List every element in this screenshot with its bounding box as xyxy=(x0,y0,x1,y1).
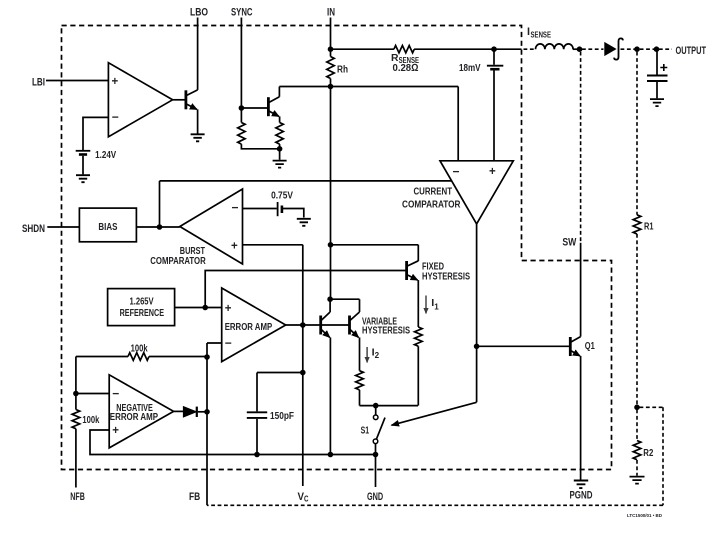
battery 18mV xyxy=(487,65,503,67)
svg-text:COMPARATOR: COMPARATOR xyxy=(150,256,206,267)
wire (external, dashed) SW column xyxy=(580,52,582,243)
ground (0.75V) xyxy=(297,219,311,226)
plus sign COUT xyxy=(660,64,667,71)
diode D1 (Schottky) xyxy=(605,38,623,59)
resistor Rh xyxy=(327,57,334,79)
wire comparator output column xyxy=(476,224,478,402)
svg-text:1.265V: 1.265V xyxy=(130,297,154,308)
resistor 100k (NFB) xyxy=(72,410,80,429)
svg-text:ERROR AMP: ERROR AMP xyxy=(225,322,273,333)
ground (R2) xyxy=(630,477,645,484)
wire NFB column upper xyxy=(75,357,77,410)
wire Q-SYNC collector up xyxy=(278,87,280,97)
wire battery to ground xyxy=(283,209,304,218)
ground (1.24V) xyxy=(76,175,90,182)
op-amp negative error amp xyxy=(109,375,173,448)
wire (external, dashed) R2 to ground xyxy=(636,460,638,476)
wire to ground xyxy=(279,144,281,160)
node junction SYNC/base xyxy=(239,105,245,111)
transistor fixed hysteresis xyxy=(407,261,419,280)
wire top rail y=86.5 to current comparator minus xyxy=(279,87,458,161)
node junction collectors xyxy=(327,296,333,302)
ground (COUT) xyxy=(650,99,664,106)
wire 150pF top xyxy=(257,373,303,412)
wire Q1 base xyxy=(477,345,569,347)
wire 100k feedback row xyxy=(76,356,128,358)
resistor I1 xyxy=(414,327,422,346)
node junction IN rail xyxy=(328,84,334,90)
resistor (SYNC left) xyxy=(238,123,245,145)
svg-text:OUTPUT: OUTPUT xyxy=(676,45,707,57)
node junction VC/150pF xyxy=(300,370,306,376)
transistor variable hysteresis left xyxy=(321,299,330,337)
wire Q1 emitter to PGND xyxy=(580,356,582,480)
wire (external, dashed) R1 to divider tap xyxy=(636,234,638,406)
svg-text:1: 1 xyxy=(434,302,439,312)
svg-text:+: + xyxy=(225,303,232,315)
wire resistor bottom corner xyxy=(241,144,279,149)
svg-text:HYSTERESIS: HYSTERESIS xyxy=(362,326,410,337)
switch S1 xyxy=(373,406,385,455)
wire battery to ground xyxy=(82,156,84,175)
node junction R1 tap xyxy=(634,46,640,52)
resistor RSENSE xyxy=(394,46,414,53)
wire S1 control arrow xyxy=(392,402,477,425)
wire U1 output to Q-LBO base xyxy=(173,99,185,101)
wire RSENSE row xyxy=(331,48,394,50)
transistor Q1 xyxy=(570,337,580,356)
svg-text:18mV: 18mV xyxy=(459,63,481,74)
svg-text:CURRENT: CURRENT xyxy=(414,187,453,198)
wire RSENSE to inductor xyxy=(414,48,521,50)
wire right emitter to I2 resistor xyxy=(359,337,361,370)
svg-text:−: − xyxy=(112,110,119,124)
capacitor COUT (polarized) xyxy=(647,76,668,82)
wire reference to fixed hysteresis base xyxy=(205,271,406,308)
node junction divider tap xyxy=(634,405,640,411)
transistor variable hysteresis right xyxy=(350,299,360,337)
node junction NFB column xyxy=(73,391,79,397)
svg-text:2: 2 xyxy=(375,350,380,360)
svg-text:1.24V: 1.24V xyxy=(95,150,116,161)
battery 1.24V xyxy=(76,150,91,152)
svg-text:SW: SW xyxy=(562,237,576,249)
battery 0.75V xyxy=(277,202,279,216)
svg-text:NFB: NFB xyxy=(70,491,85,503)
svg-text:SENSE: SENSE xyxy=(531,30,552,40)
svg-text:S1: S1 xyxy=(361,426,370,437)
wire fixed emitter down xyxy=(417,280,419,327)
node junction burst plus on IN column xyxy=(328,242,334,248)
svg-text:COMPARATOR: COMPARATOR xyxy=(402,200,461,211)
node junction 150pF rail xyxy=(254,452,260,458)
svg-text:+: + xyxy=(112,76,119,88)
svg-text:IN: IN xyxy=(327,6,335,18)
node junction S1 tap xyxy=(373,403,379,409)
wire NFB pin stub xyxy=(75,429,77,488)
node junction FB/feedback xyxy=(204,354,210,360)
wire SYNC pin down xyxy=(240,18,242,123)
wire Q-SYNC emitter to resistor xyxy=(279,116,281,122)
svg-text:Rh: Rh xyxy=(337,65,348,76)
wire I2 resistor to bottom rail xyxy=(359,390,361,406)
wire I1 resistor to bottom rail xyxy=(417,346,419,405)
svg-text:0.28Ω: 0.28Ω xyxy=(393,63,419,74)
node junction COUT tap xyxy=(654,46,660,52)
svg-text:+: + xyxy=(112,425,119,437)
wire (external, dashed) SW node to diode xyxy=(582,48,604,50)
svg-text:PGND: PGND xyxy=(570,489,593,501)
svg-text:0.75V: 0.75V xyxy=(271,191,293,202)
wire burst enable rail y=181 xyxy=(160,180,452,182)
current arrow I1 xyxy=(425,296,427,314)
svg-text:−: − xyxy=(112,387,119,401)
node junction GND pin xyxy=(373,452,379,458)
wire BIAS output xyxy=(136,226,179,228)
IC boundary dashed box xyxy=(62,26,612,470)
node junction IN/RSENSE xyxy=(328,46,334,52)
wire burst minus to battery xyxy=(243,208,277,210)
wire bias junction up xyxy=(159,181,161,227)
svg-text:FB: FB xyxy=(189,491,200,503)
wire feedback resistor to FB column xyxy=(149,356,207,358)
svg-text:R2: R2 xyxy=(643,448,653,459)
block BIAS xyxy=(79,208,136,242)
wire LBI input xyxy=(46,80,108,82)
wire hysteresis bottom rail xyxy=(360,405,419,407)
wire Q1 collector to SW xyxy=(580,243,582,337)
wire left emitter down to rail xyxy=(329,337,331,454)
wire diode to FB column xyxy=(198,411,207,413)
inductor L1 xyxy=(536,44,574,49)
svg-text:150pF: 150pF xyxy=(270,411,294,422)
block 1.265V REFERENCE xyxy=(108,289,175,326)
wire burst plus / VC column xyxy=(243,245,303,486)
wire LBO emitter to ground xyxy=(197,109,199,133)
wire (external, dashed) divider tap to R2 xyxy=(636,410,638,441)
current comparator A1 xyxy=(440,161,513,224)
ground (Q-LBO emitter) xyxy=(191,134,205,141)
current arrow I2 xyxy=(366,347,368,363)
node junction VC on output xyxy=(300,322,306,328)
wire error amp output xyxy=(286,324,350,326)
wire error amp minus to FB column xyxy=(207,343,222,505)
ground (PGND) xyxy=(574,481,588,489)
wire IN column down xyxy=(330,79,332,300)
node junction resistors xyxy=(277,146,283,152)
resistor 100k (feedback) xyxy=(128,353,149,361)
svg-text:−: − xyxy=(453,165,460,179)
wire IN pin down xyxy=(330,18,332,57)
op-amp error amp xyxy=(222,288,286,362)
resistor R2 xyxy=(633,441,641,460)
svg-text:SYNC: SYNC xyxy=(231,6,253,18)
node junction Q1 base tap xyxy=(474,344,480,350)
node junction BIAS output xyxy=(157,224,163,230)
svg-text:SHDN: SHDN xyxy=(22,223,45,235)
svg-text:+: + xyxy=(231,241,238,253)
svg-text:R1: R1 xyxy=(644,222,654,233)
node junction reference tap xyxy=(202,305,208,311)
op-amp U1 low-battery comparator xyxy=(108,63,172,137)
svg-text:−: − xyxy=(225,336,232,350)
svg-text:LBO: LBO xyxy=(190,6,208,18)
svg-text:+: + xyxy=(489,166,496,178)
svg-text:GND: GND xyxy=(367,491,383,503)
svg-text:LTC1500/01 • BD: LTC1500/01 • BD xyxy=(627,513,662,519)
node junction 18mV tap xyxy=(491,46,497,52)
svg-text:−: − xyxy=(232,201,239,215)
wire reference output xyxy=(175,307,222,309)
wire U1 minus input xyxy=(83,117,108,150)
resistor R1 xyxy=(633,215,641,234)
wire GND pin stub xyxy=(375,455,377,488)
ground (SYNC) xyxy=(273,161,287,168)
wire inductor to SW node xyxy=(573,48,581,50)
node junction SW xyxy=(577,46,583,52)
wire negative amp minus input xyxy=(76,393,109,395)
diode D2 xyxy=(183,407,196,417)
transistor Q-LBO xyxy=(186,90,198,110)
wire SYNC base xyxy=(241,107,267,109)
wire (external, dashed) R1 column xyxy=(636,52,638,215)
wire (external, dashed) diode to OUTPUT xyxy=(621,48,673,50)
svg-text:LBI: LBI xyxy=(32,77,45,89)
svg-text:HYSTERESIS: HYSTERESIS xyxy=(422,272,470,283)
wire SHDN input xyxy=(47,226,79,228)
svg-text:BIAS: BIAS xyxy=(98,222,117,233)
node junction diode/FB xyxy=(204,409,210,415)
resistor (SYNC emitter) xyxy=(276,123,283,145)
wire negative amp output xyxy=(174,410,184,412)
wire 18mV to current comparator plus xyxy=(493,49,495,161)
capacitor 150pF xyxy=(247,412,267,418)
node junction emitter rail xyxy=(328,452,334,458)
wire LBO collector to pin xyxy=(197,18,199,90)
svg-text:100k: 100k xyxy=(131,344,148,355)
svg-text:Q1: Q1 xyxy=(585,341,595,352)
wire COUT top xyxy=(656,49,658,74)
op-amp burst comparator xyxy=(180,189,243,264)
transistor Q-SYNC xyxy=(268,97,279,117)
wire 150pF bottom xyxy=(256,419,258,455)
wire internal ground rail xyxy=(90,430,376,455)
svg-text:100k: 100k xyxy=(82,415,99,426)
wire collector pair xyxy=(330,298,359,300)
svg-text:ERROR AMP: ERROR AMP xyxy=(110,412,158,423)
svg-text:REFERENCE: REFERENCE xyxy=(120,308,164,319)
wire fixed hysteresis collector feed xyxy=(331,245,419,261)
wire COUT to ground xyxy=(656,82,658,98)
wire (external, dashed) border to inductor xyxy=(524,48,536,50)
svg-text:C: C xyxy=(304,494,309,504)
wire (external, dashed) FB feedback path xyxy=(207,407,663,505)
resistor I2 xyxy=(356,371,364,390)
